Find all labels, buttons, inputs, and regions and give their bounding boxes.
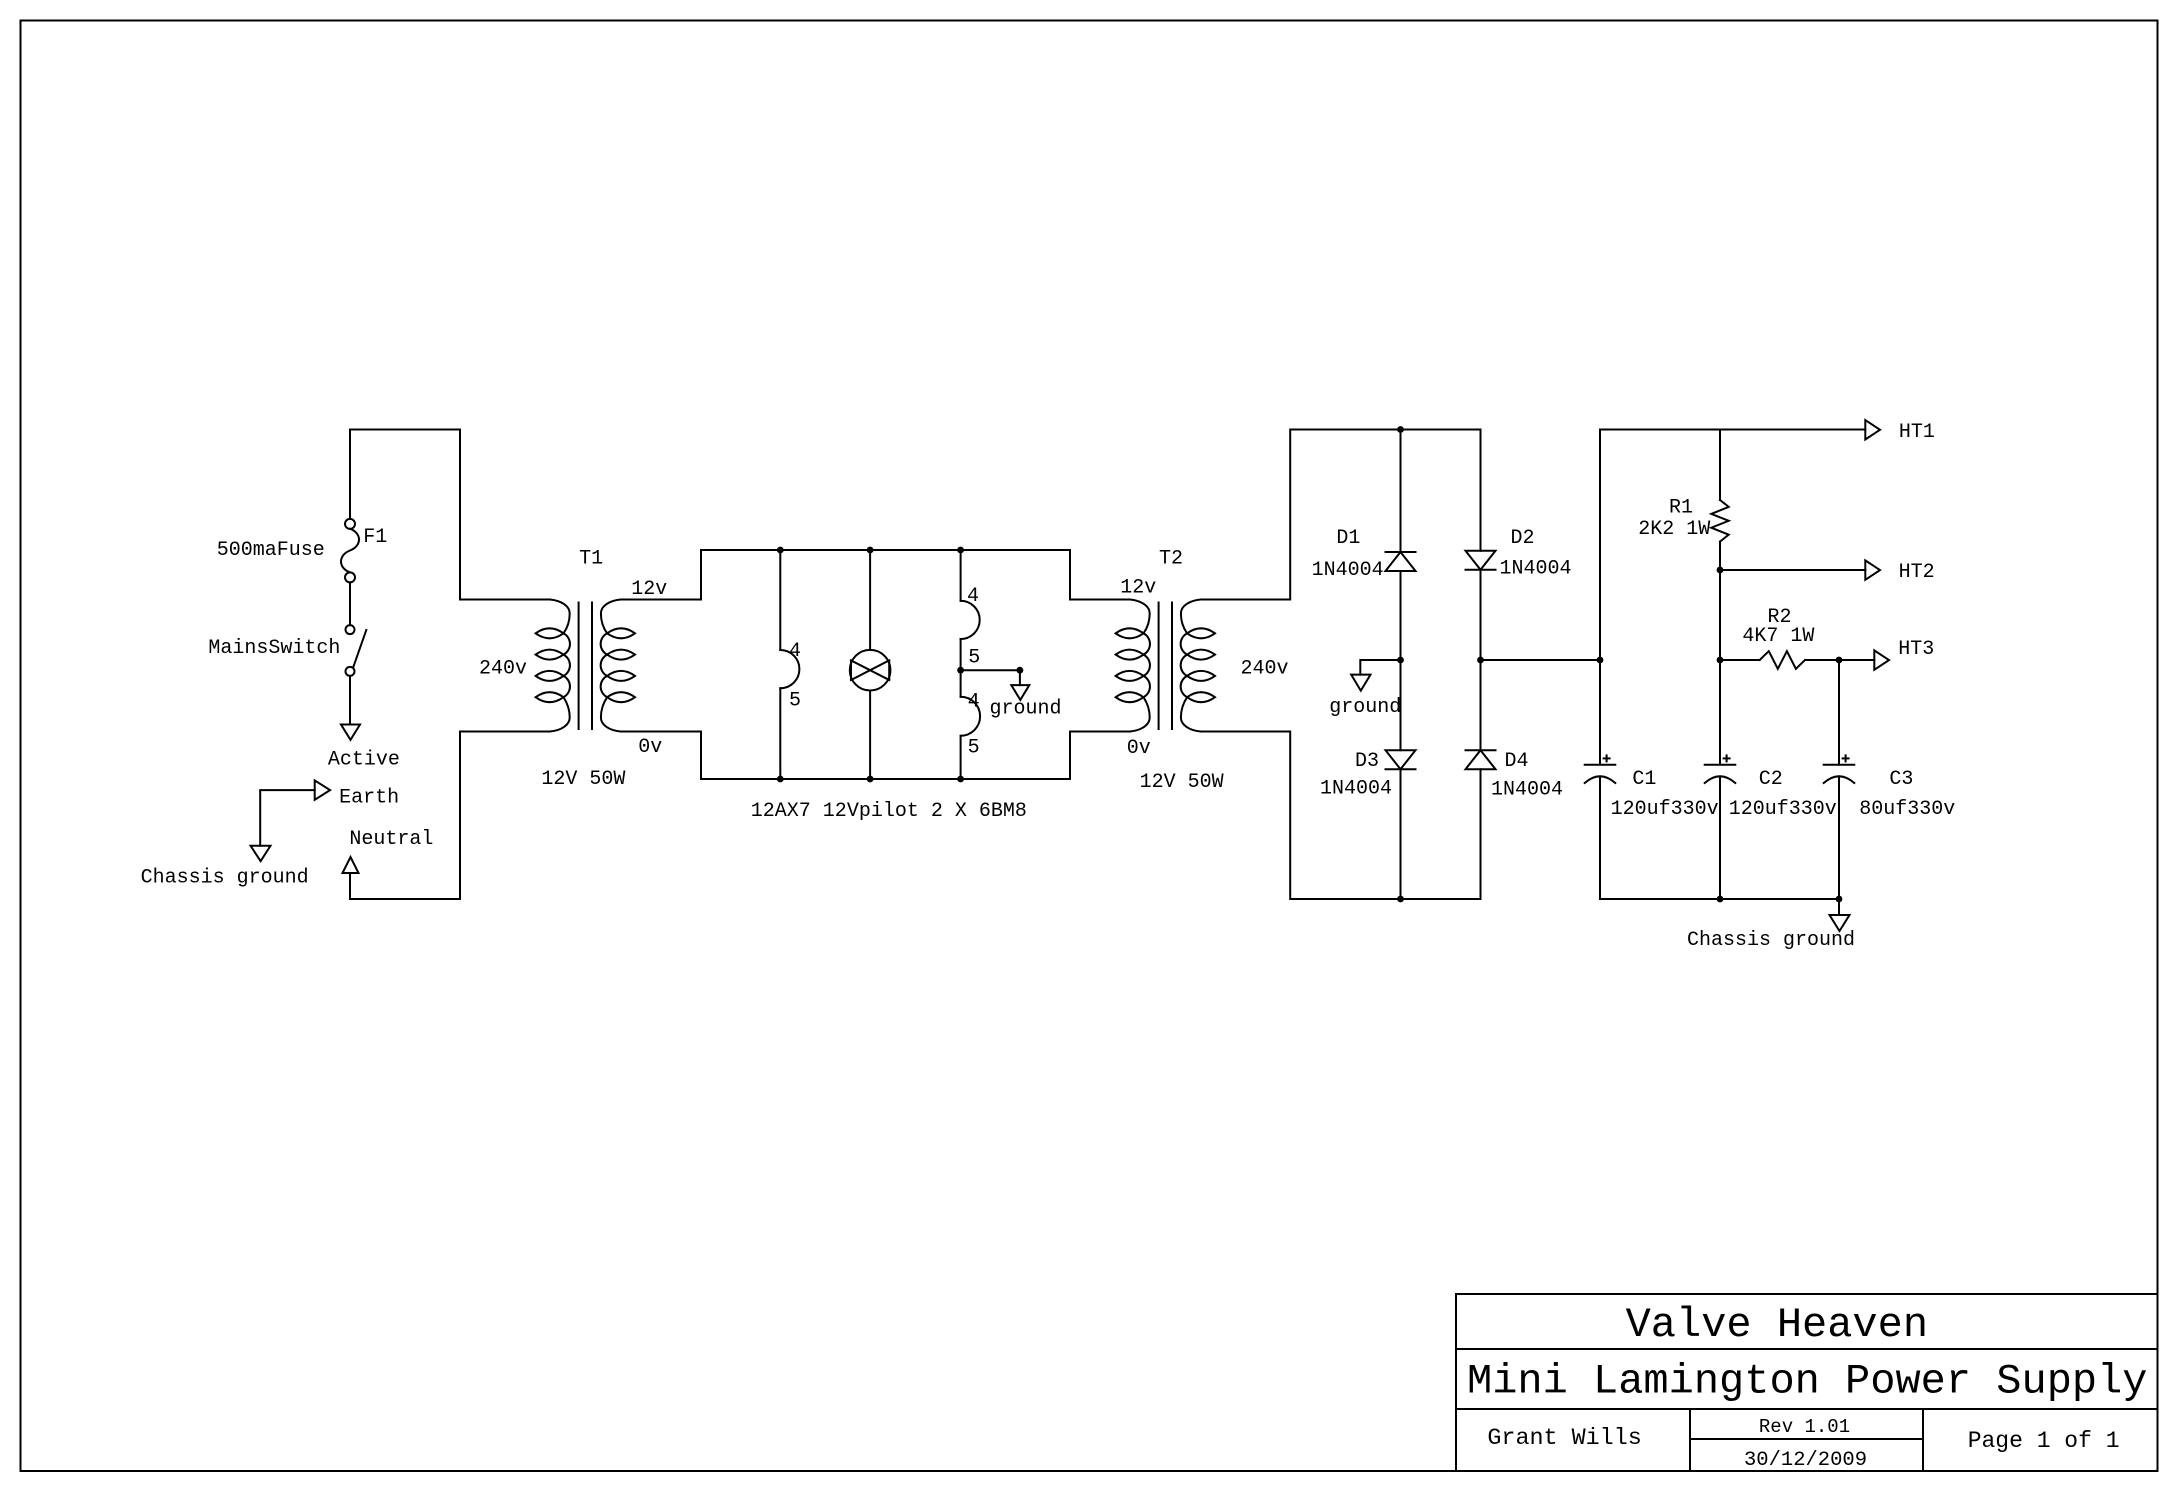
- node HT2 output: [1865, 560, 1934, 584]
- svg-text:Chassis ground: Chassis ground: [1687, 929, 1855, 952]
- wire filter riser and HT1 bus: [1600, 430, 1865, 661]
- fuse F1: [217, 519, 388, 583]
- svg-text:240v: 240v: [1241, 658, 1289, 681]
- svg-text:12AX7 12Vpilot 2 X 6BM8: 12AX7 12Vpilot 2 X 6BM8: [751, 800, 1027, 823]
- junction heater bottom bus at 12AX7: [777, 776, 784, 783]
- svg-text:ground: ground: [990, 698, 1062, 721]
- wire to chassis ground: [1838, 899, 1840, 915]
- wire earth to chassis ground: [260, 790, 315, 846]
- svg-text:500maFuse: 500maFuse: [217, 539, 325, 562]
- wire T2 primary top: [1070, 550, 1130, 600]
- junction heater top bus at 6BM8: [957, 547, 964, 554]
- svg-text:120uf330v: 120uf330v: [1729, 798, 1837, 821]
- node HT2 (R1-C2): [1717, 567, 1724, 574]
- svg-text:120uf330v: 120uf330v: [1611, 798, 1719, 821]
- svg-text:5: 5: [968, 737, 980, 760]
- svg-text:Page 1 of 1: Page 1 of 1: [1968, 1428, 2120, 1454]
- svg-text:2K2 1W: 2K2 1W: [1638, 518, 1710, 541]
- capacitor C1 120uf330v: [1585, 660, 1719, 899]
- wire T1 primary bottom: [460, 731, 550, 733]
- svg-text:Active: Active: [328, 749, 400, 772]
- svg-text:240v: 240v: [479, 658, 527, 681]
- svg-text:D1: D1: [1336, 527, 1360, 550]
- diode D1 1N4004: [1312, 430, 1416, 751]
- node Active terminal: [328, 725, 400, 772]
- svg-text:12v: 12v: [631, 578, 667, 601]
- svg-text:HT1: HT1: [1899, 421, 1935, 444]
- junction bottom bus at C3: [1836, 896, 1843, 903]
- transformer T2 secondary winding: [1181, 600, 1201, 732]
- svg-text:0v: 0v: [1127, 737, 1151, 760]
- node HT1 output: [1865, 420, 1935, 444]
- resistor R1 2K2 1W: [1638, 430, 1728, 571]
- svg-text:D2: D2: [1511, 527, 1535, 550]
- svg-text:HT3: HT3: [1898, 638, 1934, 661]
- wire T1 primary top: [460, 599, 550, 601]
- node bridge ground (D1-D3): [1397, 657, 1404, 664]
- node Earth terminal: [315, 780, 399, 809]
- svg-text:12V 50W: 12V 50W: [541, 768, 625, 791]
- transformer T2 primary winding: [1130, 600, 1150, 732]
- svg-text:4K7 1W: 4K7 1W: [1742, 625, 1814, 648]
- svg-text:R1: R1: [1669, 497, 1693, 520]
- diode D2 1N4004: [1466, 430, 1572, 751]
- svg-text:T1: T1: [579, 548, 603, 571]
- diode D4 1N4004: [1466, 750, 1564, 899]
- transformer T1 secondary winding: [601, 600, 621, 732]
- wire T2 secondary top to bridge top bus: [1201, 430, 1481, 600]
- node bridge output (D2-D4): [1477, 657, 1484, 664]
- transformer T1 core: [578, 603, 580, 730]
- svg-text:D3: D3: [1355, 750, 1379, 773]
- switch MainsSwitch: [208, 625, 366, 676]
- junction bottom bus at C2: [1717, 896, 1724, 903]
- junction heater bottom bus at pilot lamp: [867, 776, 874, 783]
- svg-text:1N4004: 1N4004: [1312, 559, 1384, 582]
- svg-text:12V 50W: 12V 50W: [1140, 771, 1224, 794]
- ground chassis (mains): [141, 846, 309, 890]
- junction R2 right at C3: [1836, 657, 1843, 664]
- wire neutral bottom loop: [350, 732, 460, 900]
- wire T1 secondary top: [621, 550, 701, 600]
- tube heaters 2 X 6BM8 (pins 4-5): [961, 550, 981, 779]
- svg-text:5: 5: [968, 647, 980, 670]
- svg-text:80uf330v: 80uf330v: [1859, 798, 1955, 821]
- wire bridge output to filter: [1481, 659, 1601, 661]
- wire T2 secondary bottom to bridge bottom bus: [1201, 732, 1481, 900]
- junction heater bottom bus at 6BM8: [957, 776, 964, 783]
- wire mains top loop: [350, 430, 460, 600]
- wire to HT3: [1839, 659, 1874, 661]
- svg-text:Neutral: Neutral: [349, 828, 433, 851]
- svg-text:1N4004: 1N4004: [1491, 779, 1563, 802]
- junction R2 left at C2: [1717, 657, 1724, 664]
- wire switch to Active: [349, 676, 351, 725]
- transformer T1 labels: [479, 548, 667, 792]
- junction bridge bottom bus at D3: [1397, 896, 1404, 903]
- svg-text:4: 4: [968, 691, 980, 714]
- svg-text:0v: 0v: [638, 736, 662, 759]
- svg-text:Earth: Earth: [339, 787, 399, 810]
- svg-text:C2: C2: [1759, 768, 1783, 791]
- wire T2 primary bottom: [1070, 732, 1130, 780]
- svg-text:C1: C1: [1632, 768, 1656, 791]
- wire filter bottom bus: [1600, 898, 1839, 900]
- wire R1 to R2 junction: [1719, 570, 1721, 660]
- node Neutral terminal: [343, 828, 434, 873]
- svg-text:T2: T2: [1159, 548, 1183, 571]
- wire heater top bus: [701, 549, 1070, 551]
- wire T1 secondary bottom: [621, 732, 701, 780]
- wire bridge center to ground: [1360, 660, 1400, 675]
- svg-text:D4: D4: [1505, 750, 1529, 773]
- transformer T1 primary winding: [550, 600, 570, 732]
- svg-text:MainsSwitch: MainsSwitch: [208, 637, 340, 660]
- capacitor C3 80uf330v: [1824, 660, 1956, 899]
- svg-text:30/12/2009: 30/12/2009: [1744, 1449, 1867, 1472]
- diode D3 1N4004: [1320, 750, 1416, 899]
- svg-text:4: 4: [967, 585, 979, 608]
- svg-text:Rev 1.01: Rev 1.01: [1759, 1416, 1850, 1438]
- title block frame: [1456, 1294, 2158, 1471]
- svg-text:Valve Heaven: Valve Heaven: [1626, 1301, 1928, 1349]
- svg-text:C3: C3: [1889, 768, 1913, 791]
- ground (bridge): [1329, 675, 1401, 719]
- svg-text:F1: F1: [363, 526, 387, 549]
- svg-text:Grant Wills: Grant Wills: [1487, 1426, 1641, 1452]
- svg-text:HT2: HT2: [1899, 561, 1935, 584]
- node HT3 output: [1874, 638, 1934, 670]
- tube heater 12AX7 (pins 4-5): [780, 550, 801, 779]
- wire to HT2: [1720, 569, 1865, 571]
- junction heater top bus at 12AX7: [777, 547, 784, 554]
- svg-text:1N4004: 1N4004: [1500, 558, 1572, 581]
- svg-text:12v: 12v: [1120, 577, 1156, 600]
- ground chassis (filter): [1687, 915, 1855, 952]
- junction heater top bus at pilot lamp: [867, 547, 874, 554]
- ground (heater): [990, 685, 1062, 720]
- junction 6BM8 pin5/pin4 tap: [957, 667, 964, 674]
- wire heater bottom bus: [701, 778, 1070, 780]
- junction filter input at C1: [1597, 657, 1604, 664]
- svg-text:5: 5: [789, 690, 801, 713]
- transformer T2 labels: [1120, 548, 1288, 795]
- resistor R2 4K7 1W: [1720, 606, 1839, 669]
- junction bridge top bus at D1: [1397, 426, 1404, 433]
- svg-text:ground: ground: [1329, 696, 1401, 719]
- transformer T2 core: [1158, 603, 1160, 730]
- capacitor C2 120uf330v: [1705, 660, 1837, 899]
- wire to fuse: [349, 430, 351, 519]
- svg-text:Mini Lamington Power Supply: Mini Lamington Power Supply: [1467, 1358, 2148, 1406]
- wire fuse to switch: [349, 582, 351, 625]
- junction heater ground stub: [1017, 667, 1024, 674]
- wire heater center tap to ground: [961, 670, 1020, 685]
- svg-text:4: 4: [789, 640, 801, 663]
- pilot lamp 12Vpilot: [850, 550, 891, 779]
- svg-text:1N4004: 1N4004: [1320, 778, 1392, 801]
- svg-text:Chassis ground: Chassis ground: [141, 867, 309, 890]
